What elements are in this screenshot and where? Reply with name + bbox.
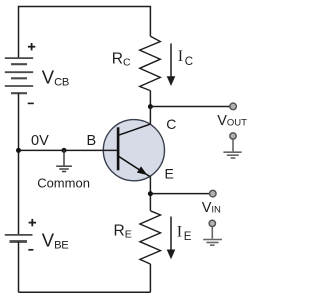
wire RC to collector node (149, 91, 151, 107)
wire base (19, 149, 119, 151)
wire RE to bottom rail (149, 264, 151, 292)
wire collector into transistor (149, 107, 151, 125)
svg-text:E: E (165, 166, 174, 182)
wire bottom rail (19, 291, 151, 293)
wire to VOUT terminal (150, 106, 229, 108)
arrow IE (167, 217, 176, 260)
transistor collector stroke (119, 124, 151, 135)
svg-text:C: C (166, 116, 176, 132)
ground VIN (203, 220, 222, 245)
battery VCB (5, 58, 33, 93)
terminal VIN (210, 190, 217, 197)
wire to VIN terminal (150, 193, 209, 195)
ground common (56, 150, 72, 171)
svg-text:I: I (177, 223, 182, 240)
ground VOUT (223, 133, 241, 158)
svg-text:E: E (184, 231, 192, 243)
svg-text:I: I (178, 48, 183, 65)
node common junction (62, 148, 67, 153)
plus sign VCB (28, 43, 35, 50)
transistor emitter arrowhead (137, 166, 147, 175)
wire left rail mid (18, 93, 20, 235)
transistor emitter stroke (119, 156, 151, 177)
svg-text:C: C (185, 56, 193, 68)
resistor RE (140, 211, 161, 264)
svg-text:Common: Common (37, 175, 90, 190)
terminal VOUT (230, 103, 237, 110)
arrow IC (167, 44, 176, 87)
resistor RC (140, 36, 161, 90)
wire top rail (19, 7, 151, 59)
svg-text:0V: 0V (31, 133, 49, 149)
minus sign VBE (28, 249, 33, 251)
battery VBE (5, 235, 33, 242)
wire left rail bottom (18, 242, 20, 293)
plus sign VBE (29, 219, 36, 226)
node 0V junction (16, 148, 21, 153)
node collector junction (148, 104, 153, 109)
transistor Q1 body (103, 120, 164, 181)
svg-text:B: B (87, 133, 97, 149)
transistor base bar (117, 127, 120, 170)
node emitter junction (148, 191, 153, 196)
wire emitter down (149, 177, 151, 211)
minus sign VCB (28, 102, 34, 104)
